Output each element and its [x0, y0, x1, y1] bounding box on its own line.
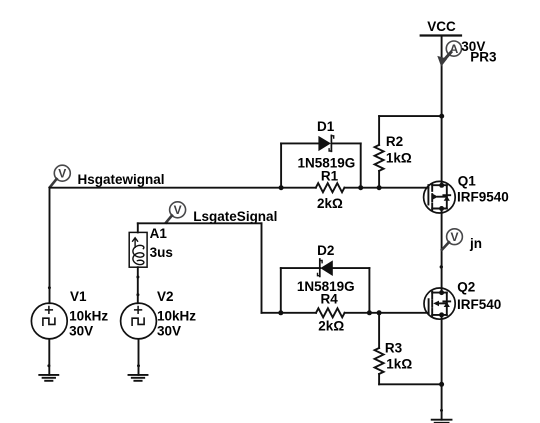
node R3 bottom junction	[439, 382, 444, 387]
wire D2 loop left vertical	[280, 268, 282, 313]
wire left vertical down to V1	[49, 188, 51, 304]
transistor Q1 IRF9540 (P-MOSFET)	[424, 181, 456, 213]
wire D1 loop right vertical	[360, 143, 362, 187]
wire main vertical from VCC to Q1 source	[441, 36, 443, 186]
gate bar	[427, 185, 429, 204]
middle stub arrow (points right)	[433, 194, 438, 200]
node pin tick (A1 bottom)	[136, 276, 139, 279]
channel segments	[431, 184, 433, 191]
svg-text:3us: 3us	[150, 245, 173, 260]
probe V Hsgatewignal	[50, 165, 71, 187]
top stub	[432, 184, 447, 186]
svg-text:V2: V2	[157, 289, 174, 304]
svg-text:2kΩ: 2kΩ	[318, 319, 344, 334]
gate bar	[428, 299, 430, 313]
wire D1 loop left vertical	[280, 143, 282, 187]
ground (right, under Q2)	[432, 420, 452, 423]
wire D2 loop right vertical	[368, 268, 370, 313]
diode D1 1N5819G (schottky, pointing right)	[318, 135, 333, 151]
resistor R2 1kOhm (vertical)	[375, 116, 384, 188]
body diode branch	[446, 293, 448, 315]
node D2 loop right	[367, 310, 372, 315]
node R3 top	[377, 310, 382, 315]
resistor R1 2kOhm (horizontal)	[316, 183, 345, 192]
svg-text:VCC: VCC	[427, 19, 456, 34]
node D2 loop left	[278, 310, 283, 315]
middle stub arrow (points left)	[433, 301, 439, 307]
svg-text:V: V	[58, 166, 66, 180]
body diode branch	[446, 185, 448, 208]
bottom stub	[432, 208, 447, 210]
wire D1 top right segment	[332, 142, 361, 144]
channel segments	[431, 292, 433, 299]
svg-text:IRF540: IRF540	[457, 297, 501, 312]
node pin tick (V2 top)	[136, 293, 139, 296]
node pin tick (V2 ground wire)	[137, 364, 140, 367]
svg-text:jn: jn	[469, 236, 482, 251]
wire LsgateSignal horizontal	[138, 222, 262, 224]
wire V1 to ground	[48, 339, 50, 375]
node pin tick (V1 top)	[48, 286, 51, 289]
node pin tick (ground wire)	[440, 409, 443, 412]
svg-text:1N5819G: 1N5819G	[298, 155, 356, 170]
resistor R4 2kOhm (horizontal)	[316, 308, 345, 317]
wire R2 branch top	[379, 115, 442, 117]
svg-text:V: V	[450, 230, 458, 244]
svg-text:30V: 30V	[69, 323, 93, 338]
svg-text:Q1: Q1	[458, 174, 477, 189]
ground (under V2)	[129, 375, 148, 381]
source V2 (square wave)	[121, 303, 157, 339]
wire Q2 gate run	[281, 312, 316, 314]
node R2 bottom	[377, 185, 382, 190]
svg-text:PR3: PR3	[470, 50, 497, 65]
svg-text:2kΩ: 2kΩ	[317, 196, 343, 211]
probe V jn	[442, 229, 463, 250]
svg-text:IRF9540: IRF9540	[457, 190, 509, 205]
node probe tick jn	[440, 265, 443, 268]
svg-text:Hsgatewignal: Hsgatewignal	[78, 172, 165, 187]
bottom stub	[432, 314, 447, 316]
svg-text:10kHz: 10kHz	[69, 309, 108, 324]
svg-text:R2: R2	[386, 134, 403, 149]
terminal dots	[439, 290, 444, 295]
svg-text:30V: 30V	[157, 323, 181, 338]
svg-text:LsgateSignal: LsgateSignal	[193, 209, 277, 224]
node pin tick (V1 ground wire)	[47, 364, 50, 367]
ground (under V1)	[39, 375, 58, 381]
svg-text:R4: R4	[321, 292, 339, 307]
wire A1 top lead	[137, 223, 139, 232]
top stub	[432, 292, 447, 294]
node D1 loop right	[358, 185, 363, 190]
svg-text:D1: D1	[317, 119, 335, 134]
probe V LsgateSignal	[166, 202, 186, 223]
diode D2 1N5819G (schottky, pointing left)	[318, 259, 333, 276]
source V1 (square wave)	[31, 303, 67, 339]
svg-text:V: V	[174, 203, 182, 217]
wire Hsgatewignal horizontal run to Q1 gate	[50, 187, 316, 189]
probe PR3 (current probe)	[437, 41, 461, 67]
svg-text:Q2: Q2	[457, 279, 475, 294]
wire Q2 source down to ground	[441, 315, 443, 420]
wire D2 top right segment	[333, 267, 370, 269]
wire V2 to ground	[138, 339, 140, 375]
wire between Q1 drain and Q2 drain	[441, 209, 443, 293]
svg-text:10kHz: 10kHz	[157, 309, 196, 324]
svg-text:1kΩ: 1kΩ	[386, 356, 412, 371]
wire A1 bottom to V2	[137, 267, 139, 303]
svg-text:R1: R1	[321, 168, 339, 183]
wire LsgateSignal vertical down	[261, 223, 263, 312]
transistor Q2 IRF540 (N-MOSFET)	[424, 288, 455, 319]
svg-text:V1: V1	[70, 289, 87, 304]
node: R2 top junction	[439, 114, 444, 119]
delay block A1	[129, 232, 147, 267]
VCC power rail	[421, 34, 461, 36]
wire R3 bottom horizontal	[379, 383, 442, 385]
node D1 loop left	[279, 185, 284, 190]
svg-text:D2: D2	[317, 243, 334, 258]
svg-text:R3: R3	[385, 340, 403, 355]
wire D2 top left segment	[281, 267, 320, 269]
wire LsgateSignal to D2 loop	[262, 312, 281, 314]
svg-text:1kΩ: 1kΩ	[386, 151, 412, 166]
wire D1 top left segment	[281, 142, 318, 144]
resistor R3 1kOhm (vertical)	[375, 313, 384, 385]
terminal dots	[439, 183, 444, 188]
svg-text:A1: A1	[150, 226, 168, 241]
